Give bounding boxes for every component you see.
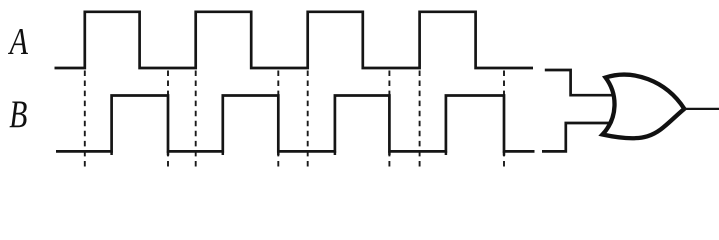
svg-text:A: A <box>7 21 28 63</box>
svg-text:B: B <box>9 93 27 136</box>
